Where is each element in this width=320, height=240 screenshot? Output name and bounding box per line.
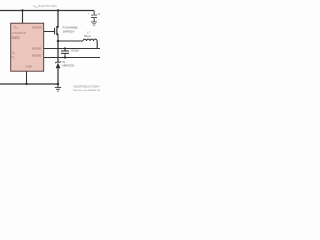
node junction D [64,47,66,49]
svg-text:Si9430DY: Si9430DY [63,29,75,33]
wire IC VIN pin [22,11,24,24]
svg-text:PDRIVE: PDRIVE [32,25,43,29]
wire ground rail [0,83,58,85]
svg-text:SHDN: SHDN [12,36,20,40]
wire IC GND pin [26,71,28,84]
inductor L1 [83,39,97,41]
svg-text:LTC1147-5: LTC1147-5 [12,31,26,35]
svg-text:D1: D1 [62,60,66,64]
background [0,0,100,100]
diode D1 schottky [56,61,61,63]
ground symbol below C1 [91,22,97,26]
wire PDRIVE to gate [44,31,55,33]
svg-text:1000pF: 1000pF [70,49,79,53]
capacitor C2 1000pF [61,49,69,58]
wire drain node to inductor [58,40,83,42]
node junction G [57,83,59,85]
wire drain node down to diode [57,41,59,62]
wire SENSE- [44,57,100,59]
ground symbol below diode [55,84,61,91]
wire diode anode to ground rail [57,68,59,84]
svg-text:**KRL SL-1-C1-0R050J 1%: **KRL SL-1-C1-0R050J 1% [72,90,100,92]
wire inductor to sense+ [96,41,98,49]
node junction C (drain node) [57,40,60,43]
svg-text:MBRD330: MBRD330 [62,64,75,68]
wire SENSE+ [44,48,100,50]
svg-text:P-CHANNEL: P-CHANNEL [63,25,79,29]
svg-text:100µF: 100µF [97,13,100,16]
node junction A (rail to IC VIN) [21,9,23,11]
transistor Q1 P-channel MOSFET [55,26,58,41]
wire Q1 source drop [57,11,59,28]
svg-text:GND: GND [26,64,32,68]
capacitor C1 CIN at right [91,11,97,22]
node junction E [64,56,66,58]
svg-text:VIN (5.2V TO 14V): VIN (5.2V TO 14V) [33,4,56,9]
svg-text:*COILTRONICS CTX50-4-MP: *COILTRONICS CTX50-4-MP [73,86,100,88]
svg-text:50µH: 50µH [84,34,91,38]
node junction F [25,83,27,85]
wire VIN top rail [0,10,94,12]
node junction B (rail to Q1 source) [57,9,59,11]
arrow on Q1 source [57,26,59,28]
op IC U1 LTC1147-5 box [11,23,44,71]
svg-text:L*: L* [87,31,90,35]
